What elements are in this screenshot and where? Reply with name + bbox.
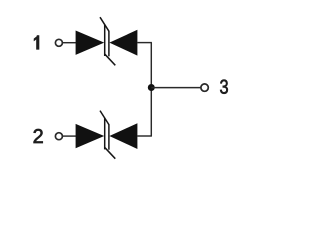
diode D2 breakdown bar right xyxy=(108,124,110,150)
diode D1 breakdown bar left xyxy=(104,24,106,56)
diode D1 right triangle xyxy=(109,30,137,56)
diode D1 left triangle xyxy=(76,31,105,55)
wire pin1 to D1 anode xyxy=(63,42,76,44)
junction dot node 3 xyxy=(148,84,155,91)
wire node to pin 3 xyxy=(151,87,200,89)
diode D2 bar top diagonal xyxy=(100,111,109,125)
pin label 3 xyxy=(220,80,228,94)
wire pin2 to D2 anode xyxy=(63,135,76,137)
terminal circle pin 1 xyxy=(55,39,62,46)
vertical bus wire xyxy=(150,43,152,136)
terminal circle pin 3 xyxy=(201,84,208,91)
terminal circle pin 2 xyxy=(55,133,62,140)
pin label 2 xyxy=(34,129,43,143)
diode D2 breakdown bar left xyxy=(104,118,106,150)
diode D1 breakdown bar right xyxy=(108,31,110,57)
diode D2 bar bottom diagonal xyxy=(105,147,116,159)
diode D1 bar bottom diagonal xyxy=(105,54,116,66)
pin label 1 xyxy=(34,35,39,49)
diode D1 bar top diagonal xyxy=(100,17,109,31)
wire D1 to node xyxy=(137,42,152,44)
diode D2 right triangle xyxy=(109,123,137,149)
wire D2 to node xyxy=(137,135,152,137)
diode D2 left triangle xyxy=(76,124,105,148)
